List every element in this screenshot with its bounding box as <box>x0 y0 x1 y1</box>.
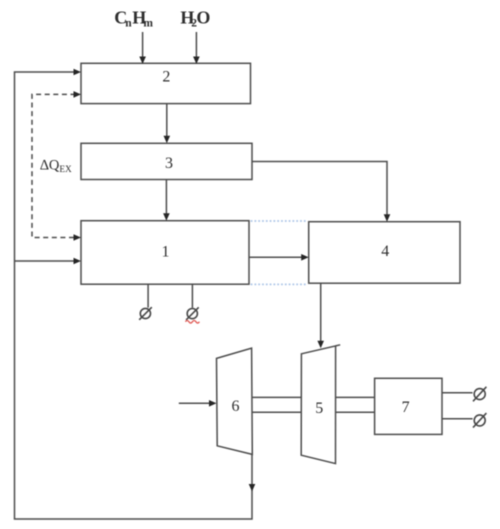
svg-text:7: 7 <box>402 399 410 416</box>
svg-text:5: 5 <box>315 400 323 417</box>
svg-text:2: 2 <box>162 69 170 86</box>
svg-text:H2O: H2O <box>180 8 210 30</box>
svg-text:3: 3 <box>165 155 173 172</box>
svg-text:6: 6 <box>232 398 240 415</box>
svg-text:1: 1 <box>162 244 170 261</box>
svg-text:4: 4 <box>381 243 389 260</box>
svg-text:∆QEX: ∆QEX <box>40 157 72 175</box>
svg-text:CnHm: CnHm <box>114 8 153 30</box>
